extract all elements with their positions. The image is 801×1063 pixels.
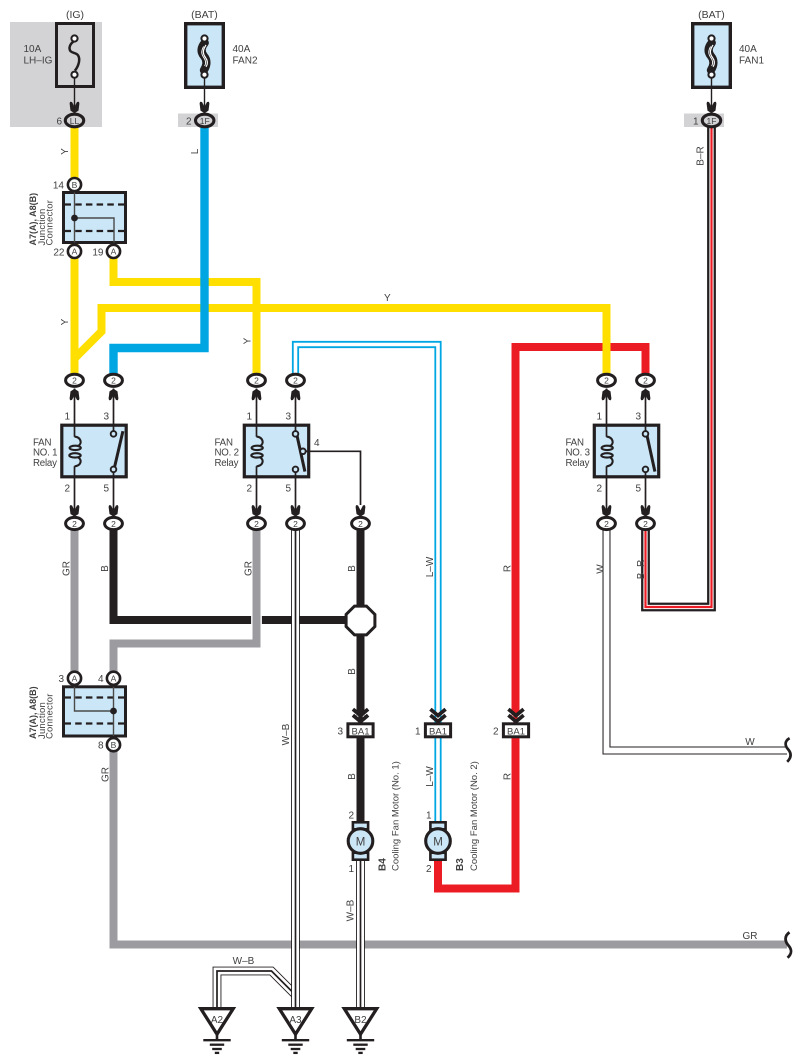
svg-text:L–W: L–W xyxy=(425,766,436,787)
svg-text:5: 5 xyxy=(103,484,109,495)
gray tag behind connector 1-1F xyxy=(684,114,724,128)
svg-text:(BAT): (BAT) xyxy=(698,9,725,21)
svg-text:3: 3 xyxy=(58,674,64,685)
svg-text:GR: GR xyxy=(62,561,73,576)
svg-text:4: 4 xyxy=(314,438,320,449)
relay NO. 3 pin 5 lead xyxy=(645,477,647,516)
svg-text:2: 2 xyxy=(604,376,609,386)
relay NO. 3 pin 3 lead xyxy=(645,389,647,426)
svg-text:L–W: L–W xyxy=(425,556,436,577)
wire B-R fuse FAN1 to relay3 pin5 xyxy=(646,124,712,607)
svg-text:W–B: W–B xyxy=(233,956,255,967)
svg-text:Connector: Connector xyxy=(45,200,56,246)
svg-text:2: 2 xyxy=(643,376,648,386)
relay NO. 2 pin 2 lead xyxy=(256,477,258,516)
relay NO. 2 coil pins 1-2 xyxy=(256,425,258,437)
relay NO. 1 pin 1 connector oval xyxy=(66,374,84,386)
svg-text:1: 1 xyxy=(348,864,354,875)
connector 3-BA1 xyxy=(353,709,368,715)
svg-text:BA1: BA1 xyxy=(507,726,525,737)
svg-text:40A: 40A xyxy=(233,44,251,55)
svg-text:3: 3 xyxy=(103,412,109,423)
relay NO. 2 pin 5 lead xyxy=(295,477,297,516)
wire L fuse FAN2 to relay1 pin3 xyxy=(114,124,205,376)
relay NO. 2 pin 5 connector oval xyxy=(287,517,305,529)
svg-text:6: 6 xyxy=(56,117,62,128)
relay NO. 3 switch pins 3-5 xyxy=(645,425,647,431)
svg-text:2: 2 xyxy=(254,376,259,386)
gray panel behind IG fuse xyxy=(10,22,102,127)
relay NO. 1 pin 5 connector oval xyxy=(105,517,123,529)
svg-text:A: A xyxy=(72,247,78,257)
svg-text:A: A xyxy=(111,674,117,684)
relay NO. 1 pin 2 connector oval xyxy=(66,517,84,529)
wire Y fuse LH-IG to relay1 pin1 xyxy=(71,123,79,376)
svg-text:B: B xyxy=(72,180,78,190)
motor B4 Cooling Fan Motor No.1 xyxy=(353,822,368,829)
svg-text:2: 2 xyxy=(596,484,602,495)
junction connector top pin B14 xyxy=(68,178,81,191)
wire W-B branch to ground A2 xyxy=(217,971,296,1009)
relay NO. 1 pin 3 lead xyxy=(113,389,115,426)
wire GR junction B8 to right break xyxy=(114,748,788,945)
svg-text:M: M xyxy=(433,836,443,848)
fuse 40A FAN2 box xyxy=(186,24,224,88)
svg-text:22: 22 xyxy=(53,248,65,259)
relay NO. 3 pin 3 connector oval xyxy=(637,374,655,386)
svg-text:Y: Y xyxy=(243,337,254,344)
connector oval 6-LL xyxy=(65,114,83,127)
svg-text:2: 2 xyxy=(246,484,252,495)
relay NO. 3 coil pins 1-2 xyxy=(606,425,608,437)
connector 2-BA1 xyxy=(508,709,523,715)
wire GR relay1 pin2 to junction A3 xyxy=(71,528,79,673)
svg-text:2: 2 xyxy=(493,727,499,738)
svg-text:2: 2 xyxy=(254,519,259,529)
svg-text:2: 2 xyxy=(358,519,363,529)
relay NO. 3 pin 2 connector oval xyxy=(598,517,616,529)
fuse 40A FAN1 lead and arrow xyxy=(711,78,713,112)
fuse 40A FAN1 element xyxy=(709,43,714,70)
svg-text:FAN1: FAN1 xyxy=(739,56,764,67)
svg-text:W: W xyxy=(596,564,607,574)
svg-text:W–B: W–B xyxy=(281,723,292,745)
svg-text:2: 2 xyxy=(111,376,116,386)
junction connector bottom internal wiring xyxy=(75,687,114,711)
wire B relay1 pin5 to junction octagon xyxy=(114,528,361,620)
relay NO. 3 pin 2 lead xyxy=(606,477,608,516)
svg-text:5: 5 xyxy=(285,484,291,495)
svg-text:B3: B3 xyxy=(455,858,466,871)
svg-text:2: 2 xyxy=(348,811,354,822)
svg-text:14: 14 xyxy=(53,181,65,192)
fuse 40A FAN2 element xyxy=(202,43,207,70)
svg-text:4: 4 xyxy=(98,674,104,685)
junction connector bottom pin A3 xyxy=(68,672,81,685)
fuse 10A LH-IG element xyxy=(70,41,80,71)
svg-text:(BAT): (BAT) xyxy=(191,9,218,21)
wire R relay3 pin3 to BA1-2 to motor B3 xyxy=(516,347,646,716)
svg-text:1: 1 xyxy=(693,117,699,128)
svg-text:2: 2 xyxy=(72,519,77,529)
relay NO. 2 pin 1 lead xyxy=(256,389,258,426)
svg-text:Y: Y xyxy=(384,293,391,304)
svg-text:1: 1 xyxy=(415,727,421,738)
svg-text:BA1: BA1 xyxy=(352,726,370,737)
svg-text:B2: B2 xyxy=(354,1015,367,1026)
svg-text:3: 3 xyxy=(337,727,343,738)
svg-text:Relay: Relay xyxy=(33,458,57,469)
svg-text:3: 3 xyxy=(635,412,641,423)
svg-text:2: 2 xyxy=(643,519,648,529)
connector 1-BA1 xyxy=(430,709,445,715)
svg-text:R: R xyxy=(503,773,514,780)
svg-text:2: 2 xyxy=(604,519,609,529)
relay NO. 1 pin 5 lead xyxy=(113,477,115,516)
svg-text:1: 1 xyxy=(426,811,432,822)
connector oval 2-1F xyxy=(196,114,214,127)
junction connector top node dot xyxy=(71,215,78,222)
relay FAN NO. 1 box xyxy=(62,425,126,477)
wire B relay2 pin4 through octagon and BA1-3 to motor B4 xyxy=(357,530,365,716)
svg-text:B–R: B–R xyxy=(636,560,647,579)
junction connector top box xyxy=(64,193,126,243)
svg-text:R: R xyxy=(503,565,514,572)
svg-text:1: 1 xyxy=(246,412,252,423)
fuse 40A FAN1 box xyxy=(693,24,731,88)
svg-text:3: 3 xyxy=(285,412,291,423)
junction connector bottom node dot xyxy=(110,708,117,715)
svg-text:2: 2 xyxy=(186,117,192,128)
svg-text:B4: B4 xyxy=(378,858,389,871)
junction connector bottom box xyxy=(64,687,126,736)
relay NO. 1 pin 3 connector oval xyxy=(105,374,123,386)
wire W-B motor B4 to ground B2 xyxy=(356,856,365,1009)
ground B2 xyxy=(344,1009,376,1034)
svg-text:2: 2 xyxy=(426,864,432,875)
svg-text:A2: A2 xyxy=(211,1015,224,1026)
ground A3 xyxy=(279,1009,311,1034)
svg-text:40A: 40A xyxy=(739,44,757,55)
junction connector top internal wiring xyxy=(74,193,76,243)
svg-text:M: M xyxy=(356,836,366,848)
fuse 10A LH-IG box xyxy=(57,24,94,87)
svg-text:1: 1 xyxy=(596,412,602,423)
relay NO. 2 switch pins 3-5 xyxy=(295,425,297,431)
relay NO. 2 pin 4 connector oval xyxy=(352,517,370,529)
svg-text:B: B xyxy=(111,740,117,750)
ground A2 xyxy=(201,1009,233,1034)
svg-text:GR: GR xyxy=(743,931,758,942)
svg-text:LL: LL xyxy=(70,116,80,126)
svg-text:2: 2 xyxy=(111,519,116,529)
relay NO. 2 pin 4 contact and lead xyxy=(300,449,306,455)
relay NO. 3 pin 1 lead xyxy=(606,389,608,426)
junction connector bottom pin B8 xyxy=(107,738,120,751)
svg-text:A: A xyxy=(72,674,78,684)
wire W relay3 pin2 to right break xyxy=(607,528,788,751)
relay NO. 1 coil pins 1-2 xyxy=(74,425,76,437)
svg-text:L: L xyxy=(190,148,201,154)
wire L-W relay2 pin3 to BA1-1 to motor B3 xyxy=(296,345,439,824)
svg-text:2: 2 xyxy=(293,376,298,386)
relay FAN NO. 3 box xyxy=(594,425,658,477)
svg-text:W: W xyxy=(745,737,755,748)
svg-text:Cooling Fan Motor (No. 1): Cooling Fan Motor (No. 1) xyxy=(390,761,401,871)
gray tag behind connector 2-1F xyxy=(178,114,218,128)
relay NO. 3 pin 5 connector oval xyxy=(637,517,655,529)
svg-text:B–R: B–R xyxy=(696,146,707,165)
junction connector top dashed rows xyxy=(65,203,125,205)
break symbol wire GR xyxy=(786,932,792,958)
relay NO. 2 pin 1 connector oval xyxy=(248,374,266,386)
svg-text:Relay: Relay xyxy=(566,458,590,469)
svg-text:Cooling Fan Motor (No. 2): Cooling Fan Motor (No. 2) xyxy=(469,761,480,871)
svg-text:B: B xyxy=(347,668,358,675)
relay NO. 2 pin 3 connector oval xyxy=(287,374,305,386)
junction connector bottom pin A4 xyxy=(107,672,120,685)
svg-text:Relay: Relay xyxy=(215,458,239,469)
svg-text:W–B: W–B xyxy=(346,899,357,921)
wire Y branch to relay3 pin1 xyxy=(75,308,607,376)
relay NO. 1 pin 2 lead xyxy=(74,477,76,516)
svg-text:B: B xyxy=(347,773,358,780)
svg-text:LH–IG: LH–IG xyxy=(24,56,53,67)
relay NO. 2 pin 3 lead xyxy=(295,389,297,426)
svg-text:A: A xyxy=(111,247,117,257)
svg-text:B: B xyxy=(100,565,111,572)
relay FAN NO. 2 box xyxy=(244,425,308,477)
svg-text:GR: GR xyxy=(244,561,255,576)
svg-text:10A: 10A xyxy=(24,44,42,55)
junction connector bottom dashed rows xyxy=(65,696,125,698)
svg-text:8: 8 xyxy=(98,741,104,752)
junction connector top pin A22 xyxy=(68,245,81,258)
svg-text:2: 2 xyxy=(64,484,70,495)
svg-text:A3: A3 xyxy=(289,1015,302,1026)
fuse 10A LH-IG lead and arrow xyxy=(74,78,76,112)
svg-text:1F: 1F xyxy=(707,116,717,126)
connector oval 1-1F xyxy=(702,114,720,127)
relay NO. 2 pin 2 connector oval xyxy=(248,517,266,529)
wire Y junction A19 to relay2 pin1 xyxy=(114,252,257,376)
svg-text:1F: 1F xyxy=(200,116,210,126)
svg-text:GR: GR xyxy=(101,767,112,782)
motor B3 Cooling Fan Motor No.2 xyxy=(430,822,445,829)
wire W-B relay2 pin5 to ground A3 xyxy=(291,528,300,1009)
junction connector top pin A19 xyxy=(107,245,120,258)
svg-text:Connector: Connector xyxy=(45,693,56,739)
svg-text:2: 2 xyxy=(293,519,298,529)
svg-text:(IG): (IG) xyxy=(66,9,84,21)
svg-text:19: 19 xyxy=(92,248,104,259)
svg-text:BA1: BA1 xyxy=(429,726,447,737)
relay NO. 3 pin 1 connector oval xyxy=(598,374,616,386)
svg-text:Y: Y xyxy=(60,318,71,325)
relay NO. 1 pin 1 lead xyxy=(74,389,76,426)
relay NO. 1 switch pins 3-5 xyxy=(113,425,115,431)
svg-text:B: B xyxy=(347,565,358,572)
svg-text:5: 5 xyxy=(635,484,641,495)
svg-text:FAN2: FAN2 xyxy=(233,56,258,67)
svg-text:2: 2 xyxy=(72,376,77,386)
svg-text:Y: Y xyxy=(60,148,71,155)
wire GR relay2 pin2 to junction A4 xyxy=(114,528,257,676)
svg-text:1: 1 xyxy=(64,412,70,423)
fuse 40A FAN2 lead and arrow xyxy=(204,78,206,112)
junction octagon node xyxy=(346,606,375,635)
break symbol wire W xyxy=(786,738,791,762)
